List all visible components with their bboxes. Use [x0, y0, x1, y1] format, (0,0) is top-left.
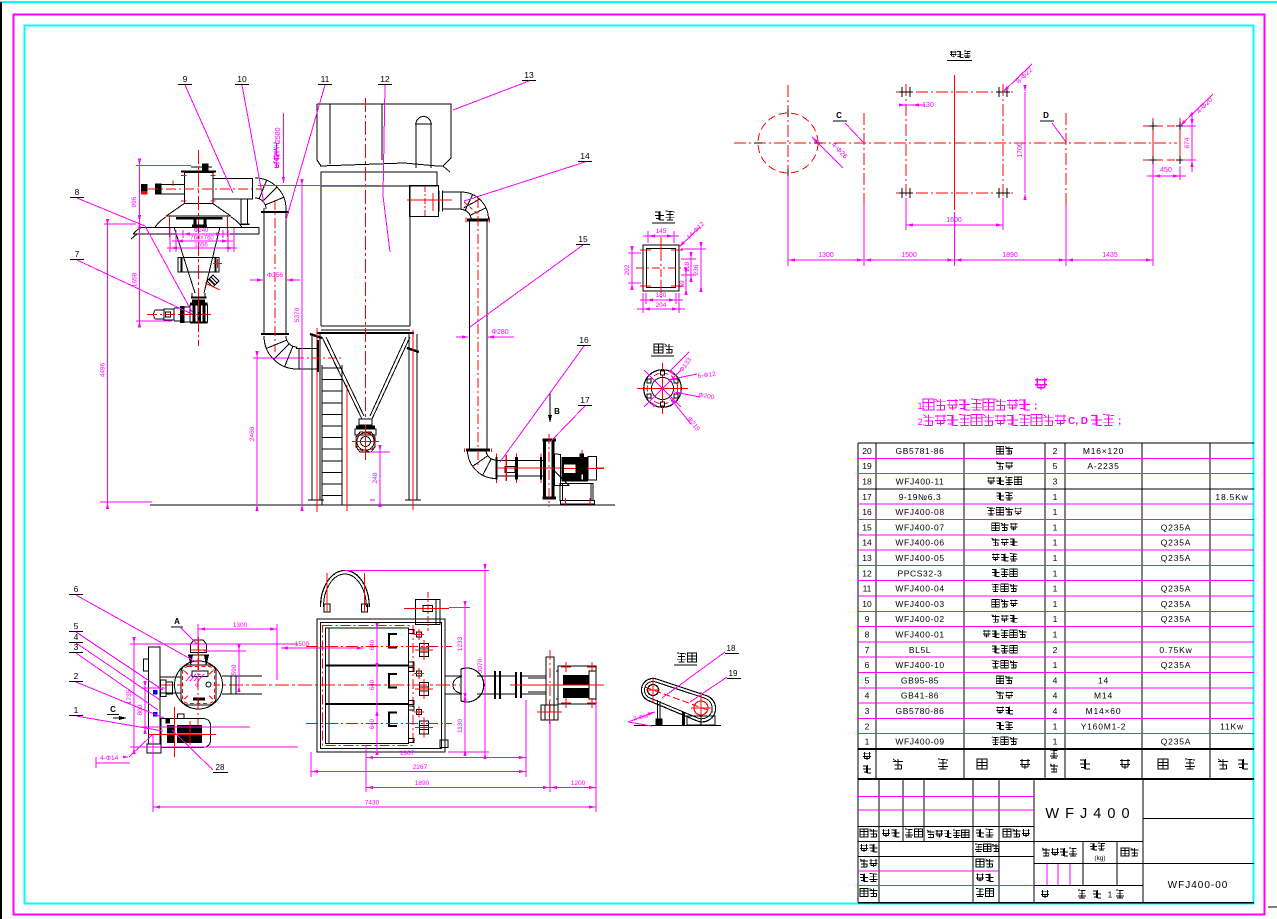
- hopper neck and flange: [359, 419, 372, 425]
- svg-text:1: 1: [865, 737, 870, 747]
- svg-text:C: C: [836, 111, 842, 120]
- detail D bracket outline: [643, 245, 679, 291]
- svg-text:C, D: C, D: [1068, 416, 1088, 427]
- svg-text:PPCS32-3: PPCS32-3: [898, 568, 943, 578]
- plan bottom dimension 1200: [595, 700, 597, 812]
- svg-text:WFJ400-05: WFJ400-05: [895, 553, 944, 563]
- svg-text:M14: M14: [1094, 691, 1113, 701]
- classifier bulge T ribs: [193, 220, 196, 225]
- svg-text:248: 248: [372, 472, 379, 483]
- dust space 2580 note: [274, 113, 286, 184]
- BOM table row separator lines: [858, 458, 1254, 733]
- plan dimension 1300: [197, 624, 199, 640]
- svg-text:C: C: [110, 705, 116, 714]
- baghouse step bands: [320, 163, 450, 186]
- bolt cross marks at rectangle corners: [899, 87, 1010, 198]
- duct transition to inlet: [296, 347, 297, 348]
- foundation anchor circle: [758, 113, 818, 173]
- plan hinge tabs: [409, 630, 415, 743]
- baghouse flange ring: [317, 332, 414, 334]
- svg-text:11Kw: 11Kw: [1220, 721, 1244, 731]
- dimension 450: [1152, 166, 1154, 180]
- classifier red bulge ticks: [169, 215, 171, 237]
- detail C support legs and base: [634, 700, 721, 726]
- fan red centerlines: [497, 467, 604, 469]
- svg-text:8: 8: [75, 187, 80, 197]
- plan fan red crosses: [510, 650, 604, 712]
- detail C title: [677, 653, 686, 662]
- outlet box red centerlines: [407, 199, 452, 201]
- detail A bolt squares: [647, 371, 678, 406]
- svg-text:15: 15: [862, 522, 872, 532]
- svg-text:;: ;: [1118, 416, 1121, 427]
- svg-text:WFJ400-08: WFJ400-08: [895, 507, 944, 517]
- note 4-phi26 with leader: [812, 137, 843, 168]
- dimension phi240 760x760 1656 under classifier: [167, 228, 237, 252]
- svg-text:Q235A: Q235A: [1161, 584, 1191, 594]
- svg-text:WFJ400-02: WFJ400-02: [895, 614, 944, 624]
- svg-text:874: 874: [1184, 137, 1191, 148]
- svg-text:9: 9: [183, 74, 188, 84]
- svg-text:M16×120: M16×120: [1083, 446, 1124, 456]
- svg-text:640: 640: [370, 718, 376, 729]
- plan bottom dimension 2267: [310, 752, 312, 777]
- svg-text:(kg): (kg): [1094, 855, 1105, 862]
- classifier top flange: [181, 164, 216, 173]
- detail A diagonal spokes: [644, 370, 681, 408]
- svg-text:1: 1: [1053, 721, 1058, 731]
- svg-text:A: A: [174, 617, 180, 626]
- plan fan flange plate: [546, 657, 554, 705]
- plan extension line bottom left: [130, 746, 298, 748]
- valve outlet pipe left: [154, 306, 191, 323]
- svg-text:W F J 4 0 0: W F J 4 0 0: [1045, 806, 1130, 822]
- plan collector red dashed inner rect: [323, 626, 414, 746]
- detail D dimensions 236 118 59: [681, 248, 706, 250]
- svg-text:6: 6: [74, 584, 79, 594]
- svg-text:1: 1: [1053, 737, 1058, 747]
- plan bolt clusters: [414, 629, 433, 738]
- detail D dimension 145: [647, 231, 649, 243]
- svg-text:17: 17: [862, 492, 872, 502]
- plan dimension 3070: [345, 570, 489, 572]
- svg-text:3070: 3070: [477, 658, 484, 673]
- foundation circle quadrant tick marks: [787, 109, 789, 117]
- svg-text:16: 16: [862, 507, 872, 517]
- fan red centerline overlay segments: [564, 468, 576, 470]
- plan blue locator squares: [153, 690, 158, 695]
- detail A note phi219: [670, 398, 691, 424]
- svg-text:3: 3: [865, 706, 870, 716]
- plan feeder motor block: [148, 707, 216, 757]
- note 8-phi22 with leader: [1003, 64, 1032, 92]
- plan top bracket box: [416, 599, 440, 624]
- svg-text:2.: 2.: [918, 417, 926, 427]
- svg-text:640: 640: [370, 679, 376, 690]
- svg-text:1890: 1890: [1002, 252, 1018, 259]
- svg-text:2267: 2267: [413, 764, 428, 771]
- svg-text:19: 19: [729, 669, 738, 678]
- dimension 1600: [905, 198, 907, 230]
- svg-text:1200: 1200: [571, 780, 586, 787]
- svg-text:A-2235: A-2235: [1087, 461, 1119, 471]
- svg-text:5: 5: [74, 621, 79, 631]
- svg-text:Φ356: Φ356: [267, 272, 283, 279]
- svg-text:7: 7: [865, 645, 870, 655]
- plan dimension 590: [204, 650, 246, 652]
- svg-text:4: 4: [1053, 706, 1058, 716]
- svg-text:10: 10: [862, 599, 872, 609]
- upper elbow red diagonal: [464, 202, 479, 215]
- leg red centerlines: [316, 328, 318, 512]
- baghouse outlet box: [409, 186, 438, 217]
- svg-text:9-19№6.3: 9-19№6.3: [899, 492, 942, 502]
- svg-text:12: 12: [862, 568, 872, 578]
- valve red centerline horizontal: [147, 314, 214, 316]
- svg-text:14: 14: [580, 151, 590, 161]
- baghouse red centerline: [365, 98, 367, 420]
- ladder: [322, 365, 342, 505]
- svg-text:7: 7: [75, 249, 80, 259]
- svg-text:1890: 1890: [415, 780, 430, 787]
- notes title: [1035, 378, 1047, 390]
- plan outlet pipe right with bulge: [445, 668, 546, 702]
- BOM header row labels: [863, 750, 1248, 773]
- foundation main horizontal centerline: [734, 142, 1177, 144]
- detail A title: [654, 344, 663, 353]
- plan classifier magenta hatch: [186, 674, 204, 689]
- plan bag area rect: [326, 628, 409, 744]
- svg-text:204: 204: [656, 302, 667, 309]
- foundation bottom dimension chain: [788, 164, 1153, 266]
- svg-text:1658: 1658: [132, 272, 139, 287]
- svg-text:GB95-85: GB95-85: [901, 675, 939, 685]
- svg-text:996: 996: [131, 196, 138, 207]
- classifier skirt curves: [155, 217, 166, 227]
- svg-text:1: 1: [1053, 599, 1058, 609]
- note 4-phi20 with leader: [1180, 94, 1213, 126]
- svg-text:18: 18: [862, 476, 872, 486]
- plan red horizontal centerlines through sections: [306, 646, 452, 648]
- svg-text:5370: 5370: [294, 307, 301, 322]
- svg-text:D: D: [1043, 111, 1049, 120]
- svg-text:15: 15: [578, 234, 588, 244]
- svg-text:1700: 1700: [1017, 142, 1024, 158]
- dimension phi356 on left downcomer: [250, 279, 258, 281]
- downcomer red centerline: [477, 198, 479, 468]
- svg-text:1300: 1300: [818, 252, 834, 259]
- detail C belt outer outline: [641, 678, 715, 721]
- dimension 130: [899, 104, 925, 106]
- svg-text:1300: 1300: [233, 622, 248, 629]
- screen edge cyan top line: [0, 1, 1277, 3]
- detail C pulley large: [694, 701, 708, 715]
- svg-text:WFJ400-06: WFJ400-06: [895, 538, 944, 548]
- svg-text:14: 14: [862, 538, 872, 548]
- extension line at classifier outlet level: [258, 185, 380, 187]
- section arrow B: [549, 393, 551, 418]
- svg-text:2: 2: [1053, 645, 1058, 655]
- svg-text:Y160M1-2: Y160M1-2: [1081, 721, 1127, 731]
- plan total dimension 7430: [152, 735, 154, 812]
- plan collector outer box: [317, 619, 445, 752]
- fan pedestal: [560, 483, 594, 506]
- svg-text:WFJ400-11: WFJ400-11: [896, 476, 945, 486]
- svg-text:450: 450: [1160, 167, 1172, 174]
- classifier support ring plate: [131, 227, 259, 239]
- svg-text:18: 18: [727, 644, 736, 653]
- plan dimension 640 chain: [370, 623, 379, 755]
- svg-text:WFJ400-09: WFJ400-09: [895, 737, 944, 747]
- foundation circle vertical centerline: [787, 85, 789, 205]
- svg-text:Q235A: Q235A: [1161, 553, 1191, 563]
- svg-text:WFJ400-00: WFJ400-00: [1168, 880, 1229, 891]
- svg-text:3: 3: [74, 642, 79, 652]
- svg-text:1: 1: [1053, 522, 1058, 532]
- hopper cone: [322, 337, 362, 419]
- svg-text:5: 5: [1053, 461, 1058, 471]
- svg-text:1500: 1500: [901, 252, 917, 259]
- classifier horizontal red centerline: [148, 188, 262, 190]
- svg-text:9: 9: [865, 614, 870, 624]
- classifier vertical red centerline: [198, 150, 200, 300]
- svg-text:2460: 2460: [249, 426, 256, 441]
- extra leader to valve: [145, 226, 192, 312]
- right bolt group red lines: [1143, 118, 1190, 164]
- svg-text:5: 5: [865, 675, 870, 685]
- svg-text:Φ240: Φ240: [194, 228, 209, 234]
- classifier rotary valve BL5L: [190, 304, 208, 323]
- detail A note phi133: [670, 352, 689, 371]
- svg-text:;: ;: [1034, 401, 1037, 412]
- plan pipe classifier to collector: [222, 675, 262, 677]
- classifier body flare: [166, 204, 184, 217]
- classifier body red side ticks: [181, 175, 187, 177]
- svg-text:17: 17: [580, 395, 590, 405]
- svg-text:13: 13: [524, 70, 534, 80]
- svg-text:4: 4: [1053, 675, 1058, 685]
- svg-text:13: 13: [862, 553, 872, 563]
- plan classifier top neck: [189, 637, 209, 666]
- svg-text:1: 1: [1053, 553, 1058, 563]
- svg-text:Φ280: Φ280: [491, 329, 508, 336]
- left downcomer bottom flange: [261, 333, 289, 335]
- classifier outlet duct: [213, 179, 253, 200]
- fan motor block: [562, 450, 597, 481]
- dimension 1658: [136, 320, 172, 322]
- downcomer flange bottom: [466, 449, 490, 452]
- red dash line at D position: [1065, 113, 1067, 205]
- svg-text:B: B: [554, 407, 560, 416]
- svg-text:1: 1: [1053, 660, 1058, 670]
- svg-text:1: 1: [1053, 614, 1058, 624]
- upper elbow to downcomer: [461, 192, 489, 220]
- BOM table outer border and column lines: [858, 443, 1254, 779]
- title block grid: [858, 779, 1254, 903]
- svg-text:2: 2: [74, 671, 79, 681]
- svg-text:3: 3: [1053, 476, 1058, 486]
- bolt group rectangle red centerlines: [896, 75, 1013, 210]
- plan bottom dimension 1367: [365, 745, 367, 762]
- svg-text:2: 2: [1053, 446, 1058, 456]
- detail D dimensions 180 204: [645, 293, 647, 304]
- plan classifier body: [175, 661, 223, 709]
- left downcomer top flange: [261, 211, 289, 213]
- svg-text:2: 2: [865, 721, 870, 731]
- plan bag brackets: [389, 634, 397, 726]
- plan classifier red vertical centerline: [197, 638, 199, 730]
- classifier body: [184, 172, 213, 203]
- svg-text:640: 640: [370, 639, 376, 650]
- detail A flange circles: [644, 370, 682, 408]
- classifier spigot pipe: [205, 275, 220, 290]
- dimension 4496: [104, 223, 136, 225]
- svg-text:4496: 4496: [100, 362, 107, 377]
- detail A note phi200: [674, 392, 700, 397]
- svg-text:1: 1: [1053, 538, 1058, 548]
- left downcomer pipe: [263, 208, 265, 334]
- red dash line at C position: [863, 113, 865, 205]
- plan dimensions 1233 1130: [449, 607, 470, 609]
- plan bottom dimension 1890: [365, 762, 367, 792]
- svg-text:19: 19: [862, 461, 872, 471]
- foundation plan title: [950, 51, 957, 58]
- fan inlet flange plate: [543, 439, 557, 500]
- right bolt group corner marks: [1149, 122, 1184, 164]
- fan inlet duct horizontal: [496, 454, 543, 484]
- svg-text:6: 6: [865, 660, 870, 670]
- detail C pulley small: [648, 685, 659, 696]
- detail C belt centerline: [645, 687, 713, 712]
- svg-text:11: 11: [321, 74, 330, 84]
- svg-text:1: 1: [1053, 492, 1058, 502]
- svg-text:145: 145: [656, 228, 667, 235]
- dimension 248: [379, 448, 381, 504]
- svg-text:1: 1: [1053, 584, 1058, 594]
- plan support foot box: [541, 705, 558, 720]
- svg-text:16: 16: [579, 335, 589, 345]
- classifier lower red centerline: [198, 300, 200, 346]
- svg-text:20: 20: [862, 446, 872, 456]
- svg-text:2580: 2580: [275, 127, 282, 143]
- svg-text:1435: 1435: [1102, 252, 1118, 259]
- plan dimension 800: [141, 687, 165, 689]
- dimension 874: [1183, 125, 1196, 127]
- svg-text:WFJ400-01: WFJ400-01: [895, 629, 944, 639]
- detail D title: [655, 211, 664, 220]
- detail A note 6-phi12: [668, 374, 697, 380]
- baghouse left leg: [311, 334, 313, 500]
- detail D dimension 202: [628, 252, 641, 254]
- fan scroll triangle: [554, 470, 570, 486]
- detail C belt inner outline: [644, 681, 712, 718]
- svg-text:1: 1: [74, 705, 79, 715]
- svg-text:WFJ400-03: WFJ400-03: [895, 599, 944, 609]
- svg-text:Q235A: Q235A: [1161, 522, 1191, 532]
- bottom elbow into baghouse: [264, 336, 297, 369]
- downcomer top flange thick: [467, 219, 489, 222]
- svg-text:Q235A: Q235A: [1161, 614, 1191, 624]
- title block labels: [860, 829, 1139, 900]
- svg-text:236: 236: [693, 264, 700, 275]
- svg-text:M14×60: M14×60: [1086, 706, 1122, 716]
- classifier main cone: [174, 227, 195, 293]
- plan left bracket plate: [144, 647, 182, 753]
- screen edge black left line: [0, 2, 2, 919]
- svg-text:4: 4: [1053, 691, 1058, 701]
- svg-text:28: 28: [216, 763, 225, 772]
- svg-text:10: 10: [237, 74, 247, 84]
- plan collector inner wall line: [321, 623, 442, 749]
- plan dimension 1735: [130, 643, 298, 645]
- ground line elevation: [150, 504, 615, 506]
- lower elbow to fan duct: [468, 450, 497, 479]
- svg-text:1130: 1130: [457, 719, 464, 733]
- svg-text:1367: 1367: [400, 750, 415, 757]
- svg-text:4-Φ14: 4-Φ14: [100, 755, 119, 762]
- svg-text:WFJ400-04: WFJ400-04: [895, 584, 944, 594]
- svg-text:18.5Kw: 18.5Kw: [1215, 492, 1248, 502]
- plan dimension 1500: [281, 647, 364, 649]
- discharge rotary valve: [352, 425, 379, 460]
- classifier inlet pipe: [141, 181, 185, 195]
- svg-text:BL5L: BL5L: [909, 645, 931, 655]
- svg-text:0.75Kw: 0.75Kw: [1159, 645, 1192, 655]
- detail D red centerlines: [660, 237, 662, 299]
- svg-text:Q235A: Q235A: [1161, 538, 1191, 548]
- svg-text:1: 1: [1108, 890, 1113, 900]
- svg-text:180: 180: [656, 292, 667, 299]
- BOM table row contents: [862, 446, 1248, 747]
- svg-text:202: 202: [624, 264, 631, 275]
- fan scroll side plates: [554, 454, 556, 486]
- note line 1: [918, 399, 1038, 412]
- svg-text:12: 12: [380, 74, 390, 84]
- detail A centerlines: [662, 363, 664, 414]
- classifier bulge top plate: [166, 215, 231, 217]
- baghouse chimney: [416, 117, 431, 168]
- detail D note 14-phi12: [679, 227, 700, 247]
- svg-text:14: 14: [1098, 675, 1109, 685]
- plan dome: [321, 571, 370, 613]
- svg-text:1: 1: [1053, 568, 1058, 578]
- svg-text:4: 4: [865, 691, 870, 701]
- svg-text:590: 590: [231, 664, 238, 675]
- dimension 1700: [1024, 92, 1026, 193]
- svg-text:11: 11: [863, 584, 872, 594]
- dimension phi280 on downcomer: [456, 336, 462, 338]
- svg-text:8: 8: [865, 629, 870, 639]
- dimension 996: [136, 164, 191, 166]
- svg-text:760×760: 760×760: [190, 236, 214, 242]
- plan bottom right step: [440, 740, 448, 747]
- svg-text:GB5781-86: GB5781-86: [896, 446, 945, 456]
- svg-text:59: 59: [679, 280, 686, 288]
- svg-text:1233: 1233: [457, 636, 464, 651]
- svg-text:130: 130: [922, 102, 934, 109]
- note line 2: [918, 415, 1122, 428]
- plan fan motor: [556, 666, 596, 704]
- downcomer pipe right: [469, 221, 471, 449]
- svg-text:GB5780-86: GB5780-86: [896, 706, 945, 716]
- classifier internal box: [178, 258, 222, 273]
- svg-text:4: 4: [74, 632, 79, 642]
- title block small magenta ticks: [1046, 864, 1048, 885]
- svg-text:Q235A: Q235A: [1161, 599, 1191, 609]
- svg-text:GB41-86: GB41-86: [901, 691, 939, 701]
- dimension 2460: [253, 357, 300, 359]
- black dash bottom-right outside frame: [1268, 906, 1277, 908]
